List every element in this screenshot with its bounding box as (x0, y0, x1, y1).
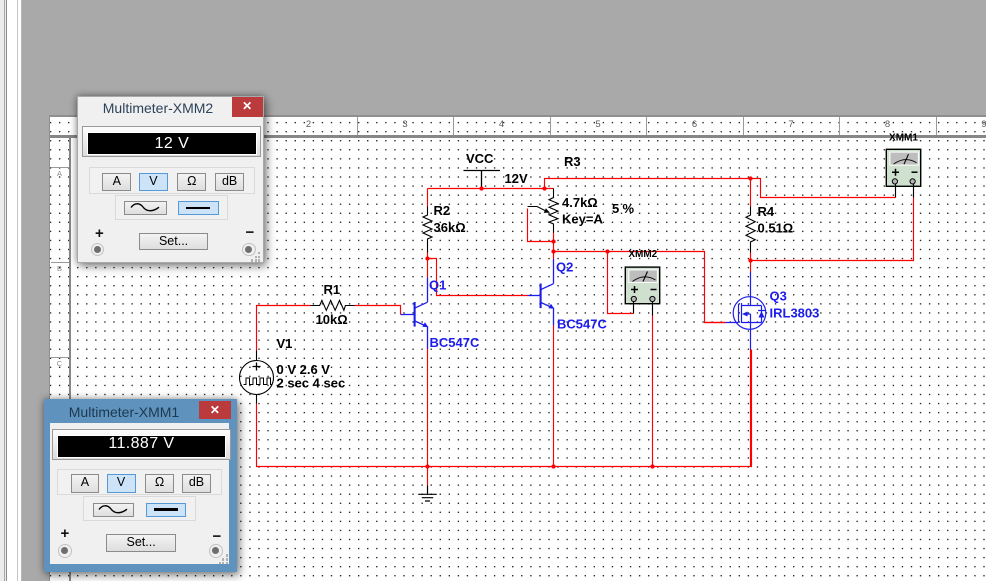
wire Q3 gate red (705, 322, 726, 324)
wire R2 bottom to Q1 collector (427, 253, 429, 278)
junction ground node (425, 464, 429, 468)
wire R1 to Q1 base (355, 306, 401, 315)
vertical ruler left border (49, 115, 50, 581)
wire pot wiper loop (528, 209, 554, 242)
VCC power symbol (464, 171, 501, 189)
source V1 (240, 351, 274, 404)
svg-text:R3: R3 (564, 154, 581, 169)
wire XMM2 minus to ground rail (652, 316, 654, 467)
wire R4 to XMM1 plus (751, 179, 896, 198)
svg-text:BC547C: BC547C (557, 317, 607, 332)
wire R4 bottom lead red (750, 253, 752, 273)
wire VCC rail (428, 188, 554, 190)
workspace white area with dot grid (includes rulers) (50, 116, 986, 581)
svg-text:V1: V1 (277, 336, 293, 351)
transistor Q1 (401, 278, 429, 350)
svg-text:Key=A: Key=A (562, 211, 603, 226)
wire Q2 emitter down (553, 326, 555, 467)
multimeter icon XMM2 (625, 267, 659, 304)
svg-text:IRL3803: IRL3803 (770, 306, 820, 321)
svg-text:0.51Ω: 0.51Ω (758, 221, 794, 236)
multimeter icon XMM1 (886, 149, 920, 186)
vertical ruler right separator (69, 138, 71, 581)
junction R3 wiper node (551, 239, 555, 243)
svg-text:%: % (623, 201, 635, 216)
svg-text:36kΩ: 36kΩ (434, 220, 466, 235)
junction Q2 emitter ground node (551, 464, 555, 468)
junction Q2 collector node (551, 249, 555, 253)
svg-text:R2: R2 (434, 203, 451, 218)
resistor R2 (423, 207, 432, 253)
potentiometer R3 body (549, 189, 558, 233)
svg-text:12V: 12V (505, 171, 528, 186)
junction R4 bottom node (748, 258, 752, 262)
junction R4 top node (748, 176, 752, 180)
ruler top border (50, 115, 986, 116)
svg-text:R4: R4 (758, 204, 775, 219)
Multimeter-XMM1 dialog (active, blue frame) (44, 399, 237, 572)
svg-text:Q3: Q3 (770, 289, 787, 304)
MOSFET Q3 (726, 272, 766, 350)
svg-text:BC547C: BC547C (430, 335, 480, 350)
svg-text:VCC: VCC (466, 151, 494, 166)
XMM1 icon leads (896, 184, 914, 198)
Multimeter-XMM2 dialog (inactive) (77, 96, 264, 263)
wire node to Q3 gate (554, 252, 726, 323)
left docked panel edge strips (0, 0, 22, 581)
junction R3 top (542, 186, 546, 190)
svg-text:Q2: Q2 (556, 260, 573, 275)
resistor R4 (746, 207, 755, 253)
wire R2 top (427, 189, 429, 207)
wire V1 to R1 (257, 306, 311, 351)
svg-text:4.7kΩ: 4.7kΩ (562, 195, 598, 210)
wire XMM2 plus to node (608, 252, 634, 314)
wire R4 top lead red (750, 179, 752, 207)
svg-text:R1: R1 (324, 282, 341, 297)
wire pot bottom node (553, 233, 555, 260)
wire ground stub (427, 467, 429, 486)
junction XMM2 plus node (605, 249, 609, 253)
wire Q3 source down (750, 350, 752, 467)
XMM2 icon leads (634, 302, 653, 316)
wire R2 node to Q2 base (428, 259, 528, 296)
svg-text:Q1: Q1 (429, 278, 446, 293)
wire Q1 emitter down (427, 349, 429, 467)
resistor R1 (311, 300, 355, 310)
svg-text:2 sec 4 sec: 2 sec 4 sec (277, 375, 346, 390)
potentiometer R3 wiper arrow (528, 207, 550, 213)
wire R4 bottom to XMM1 minus (751, 198, 914, 261)
ground (418, 486, 437, 502)
transistor Q2 (528, 259, 555, 326)
ruler division marks + numbers (horizontal) (0, 0, 986, 1)
svg-text:10kΩ: 10kΩ (316, 312, 348, 327)
wire ground rail (257, 350, 752, 467)
svg-text:XMM1: XMM1 (889, 132, 918, 143)
wire top rail to R4 (545, 179, 751, 189)
svg-text:5: 5 (612, 201, 619, 216)
ruler bottom separator (50, 135, 986, 137)
junction VCC tap (479, 186, 483, 190)
junction XMM2 minus ground node (650, 464, 654, 468)
junction R2 bottom node (425, 256, 429, 260)
svg-text:XMM2: XMM2 (628, 249, 657, 260)
